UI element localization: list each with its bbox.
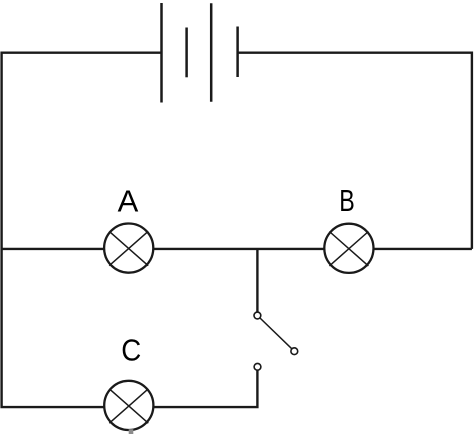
battery B1 long plate (right cell +) bbox=[210, 3, 213, 102]
switch S1 blade (open) bbox=[257, 316, 294, 352]
lamp C body bbox=[104, 381, 153, 430]
wire: middle lamp row A-B bbox=[2, 248, 472, 250]
switch S1 top contact bbox=[254, 312, 261, 319]
wire: top-right / right side down to lamp row bbox=[238, 53, 472, 249]
svg-text:C: C bbox=[121, 333, 141, 368]
lamp A body bbox=[104, 224, 153, 273]
switch S1 bottom contact bbox=[254, 363, 261, 370]
lamp B body bbox=[324, 224, 373, 273]
battery B1 short plate (left cell -) bbox=[185, 28, 188, 78]
battery B1 long plate (left cell +) bbox=[160, 3, 163, 103]
svg-text:A: A bbox=[118, 184, 139, 219]
wire: top-left / left side / bottom run to switch lower contact bbox=[2, 53, 258, 407]
svg-text:B: B bbox=[339, 183, 355, 218]
battery B1 short plate (right cell -) bbox=[236, 27, 239, 78]
switch S1 blade end contact bbox=[291, 348, 298, 355]
wire: junction drop to switch top contact bbox=[256, 249, 258, 316]
cropped gray stub below lamp C bbox=[129, 429, 134, 434]
